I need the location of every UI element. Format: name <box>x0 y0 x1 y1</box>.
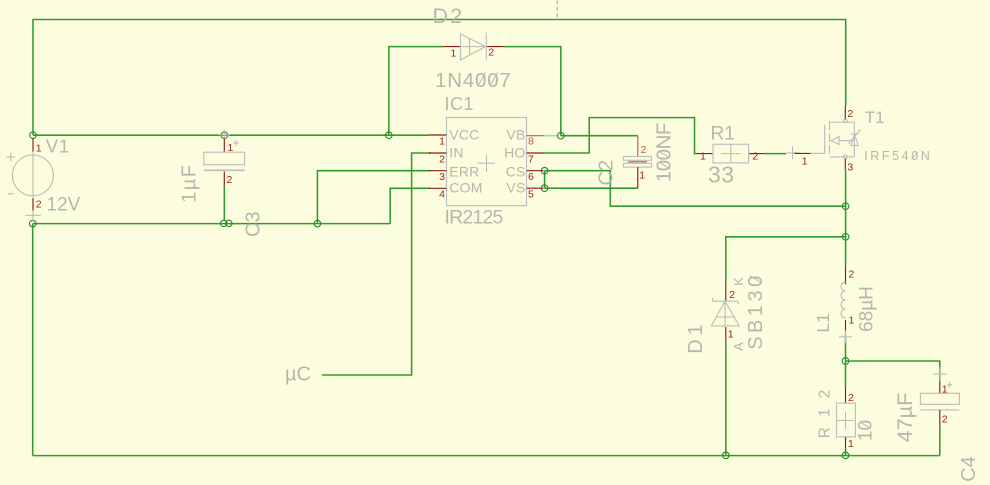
diode D2 <box>433 4 512 92</box>
junction D1 bottom <box>723 452 730 459</box>
svg-text:1: 1 <box>728 329 734 341</box>
svg-text:2: 2 <box>752 151 758 163</box>
svg-text:33: 33 <box>708 162 735 188</box>
svg-text:C3: C3 <box>243 211 265 237</box>
wire left vertical down <box>32 224 34 456</box>
resistor R12 <box>816 380 876 450</box>
op-amp driver IC1 IR2125 <box>429 94 544 229</box>
wire CS-VS tie <box>544 171 546 189</box>
capacitor C4 <box>893 367 980 481</box>
junction R12 bottom <box>842 452 849 459</box>
svg-text:1: 1 <box>36 143 42 155</box>
svg-text:µC: µC <box>285 364 311 386</box>
svg-text:D2: D2 <box>433 4 465 28</box>
wire C3 pin2 down <box>223 186 225 220</box>
wire R1 to T1 gate <box>764 153 786 155</box>
wire D2 branch up <box>389 47 443 136</box>
wire R12 down <box>845 448 847 455</box>
svg-text:2: 2 <box>439 153 445 165</box>
wire +12V rail A <box>33 134 429 136</box>
svg-text:1: 1 <box>848 438 854 450</box>
inductor L1 <box>813 266 877 344</box>
junction source node <box>842 203 849 210</box>
svg-text:47µF: 47µF <box>893 393 917 442</box>
wire COM down <box>390 188 430 223</box>
svg-text:IR2125: IR2125 <box>445 207 504 229</box>
svg-text:2: 2 <box>729 289 735 301</box>
svg-text:1µF: 1µF <box>179 164 201 203</box>
svg-text:3: 3 <box>439 171 445 183</box>
wire C4 down <box>939 425 941 456</box>
wire CS to source <box>545 171 846 207</box>
svg-text:6: 6 <box>528 171 534 183</box>
svg-text:D1: D1 <box>685 320 707 354</box>
svg-text:2: 2 <box>488 47 494 59</box>
diode D1 SB130 <box>685 272 767 354</box>
svg-text:4: 4 <box>439 189 445 201</box>
junction D1 branch node <box>842 234 849 241</box>
svg-text:A: A <box>731 342 746 351</box>
wire VB to C2 <box>561 135 638 137</box>
svg-text:2: 2 <box>227 174 233 186</box>
svg-text:1: 1 <box>639 170 645 182</box>
svg-text:12V: 12V <box>47 195 81 216</box>
junction VS pin <box>541 185 548 192</box>
wire D2 cathode to VB <box>504 47 561 136</box>
svg-text:CS: CS <box>506 164 526 180</box>
svg-text:IN: IN <box>449 144 463 160</box>
svg-text:1: 1 <box>439 136 445 148</box>
wire top rail and side verticals <box>33 20 846 136</box>
junction V1 pin2 <box>29 220 36 227</box>
wire HO to R1 <box>544 118 697 154</box>
junction L1 output node <box>842 358 849 365</box>
resistor R1 <box>697 124 765 188</box>
svg-text:2: 2 <box>36 199 42 211</box>
svg-text:R1: R1 <box>711 124 735 145</box>
svg-text:T1: T1 <box>865 108 885 127</box>
wire node to C4 <box>846 361 940 382</box>
junction CS pin <box>541 167 548 174</box>
svg-text:2: 2 <box>942 414 948 426</box>
junction C3 pin2 b <box>226 220 232 226</box>
svg-text:3: 3 <box>847 162 853 174</box>
wire L1 to node <box>845 339 847 386</box>
svg-text:68µH: 68µH <box>857 286 878 332</box>
svg-text:K: K <box>731 277 746 286</box>
junction VB node <box>558 132 565 139</box>
svg-text:100NF: 100NF <box>653 123 676 182</box>
capacitor C3 <box>179 130 265 237</box>
svg-text:1: 1 <box>451 48 457 60</box>
svg-text:VS: VS <box>506 180 525 196</box>
svg-text:2: 2 <box>848 392 854 404</box>
junction ERR node <box>314 220 321 227</box>
wire IN from uC <box>322 153 431 375</box>
junction C3 pin2 a <box>221 220 227 226</box>
svg-text:8: 8 <box>528 136 534 148</box>
wire D1 anode down <box>725 340 727 455</box>
svg-text:5: 5 <box>528 189 534 201</box>
svg-text:C4: C4 <box>958 456 980 482</box>
svg-text:VB: VB <box>506 127 525 143</box>
svg-text:IC1: IC1 <box>445 94 475 114</box>
svg-text:R12: R12 <box>816 380 833 438</box>
junction D2 branch <box>386 132 393 139</box>
svg-text:VCC: VCC <box>449 127 479 143</box>
svg-text:C2: C2 <box>596 160 618 186</box>
svg-text:1: 1 <box>802 155 808 167</box>
sheet boundary dashed mark <box>556 1 558 18</box>
junction C3 pin1 <box>221 132 228 139</box>
transistor T1 IRF540N <box>787 106 933 174</box>
wire D1 branch <box>726 237 846 283</box>
svg-text:2: 2 <box>847 108 853 120</box>
capacitor C2 <box>596 123 676 188</box>
svg-text:1: 1 <box>849 315 855 327</box>
wire VS to C2 <box>545 187 638 189</box>
wire T1 source vertical <box>845 170 847 266</box>
svg-text:10: 10 <box>856 420 877 441</box>
svg-text:1N4007: 1N4007 <box>435 69 512 92</box>
svg-text:ERR: ERR <box>449 164 479 180</box>
svg-text:7: 7 <box>528 153 534 165</box>
svg-text:SB130: SB130 <box>745 272 767 350</box>
wire ERR down <box>317 171 430 224</box>
svg-text:2: 2 <box>641 144 647 156</box>
svg-text:IRF540N: IRF540N <box>864 149 932 163</box>
svg-text:COM: COM <box>449 180 482 196</box>
voltage source V1 <box>7 136 81 221</box>
svg-text:V1: V1 <box>46 136 70 157</box>
wire VB pin short <box>544 135 558 137</box>
wire bottom rail <box>33 455 940 457</box>
svg-text:2: 2 <box>849 269 855 281</box>
svg-text:1: 1 <box>700 151 706 163</box>
junction V1 pin1 <box>30 132 37 139</box>
svg-text:HO: HO <box>504 144 525 160</box>
wire 0V rail B <box>33 223 391 225</box>
svg-text:L1: L1 <box>813 313 833 332</box>
